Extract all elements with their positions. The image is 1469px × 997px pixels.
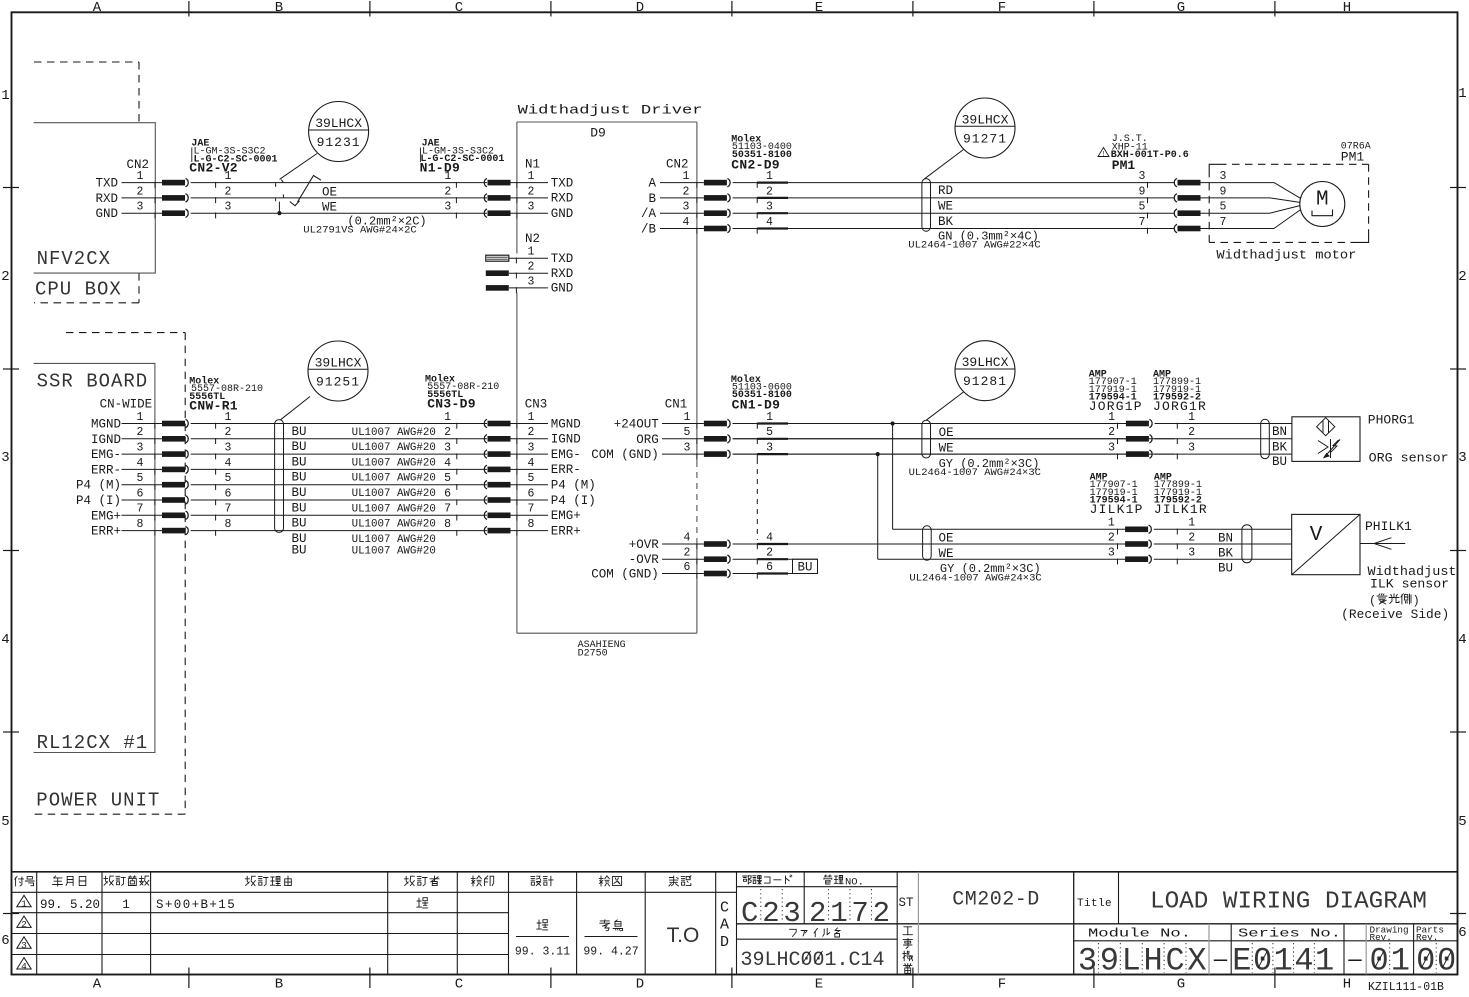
Parts Rev. header: [1416, 925, 1444, 944]
connector PM1 mating: [1139, 170, 1201, 234]
svg-text:ERR-: ERR-: [91, 463, 121, 477]
svg-text:GND: GND: [551, 207, 574, 221]
svg-text:—: —: [1347, 948, 1362, 973]
svg-text:BU: BU: [292, 486, 307, 500]
svg-text:2: 2: [1108, 531, 1115, 544]
svg-text:1: 1: [1, 88, 9, 104]
svg-text:A: A: [648, 177, 656, 191]
connector CN2-D9 part labels (Molex): [731, 133, 792, 172]
BU jumper box: [793, 559, 818, 574]
svg-text:2: 2: [225, 426, 232, 439]
ORG cable labels OE WE GY: [909, 426, 1041, 479]
svg-text:BU: BU: [292, 440, 307, 454]
svg-text:6: 6: [1, 933, 9, 949]
svg-text:8: 8: [528, 518, 535, 531]
svg-text:3: 3: [766, 201, 773, 214]
series number E0141: [1232, 943, 1334, 980]
svg-text:CN3: CN3: [525, 398, 548, 412]
connector N1-D9 mating: [444, 170, 510, 218]
svg-text:ORG: ORG: [636, 433, 659, 447]
svg-text:A: A: [93, 0, 102, 16]
svg-text:2: 2: [1108, 426, 1115, 439]
svg-text:1: 1: [137, 411, 144, 424]
部課コード / 管理NO. header: [743, 875, 864, 889]
svg-text:—: —: [1213, 948, 1228, 973]
connector CN-WIDE pins 1-8: [76, 398, 162, 539]
connector CN2 (NFV2CX) pins 1-3: [95, 158, 162, 221]
svg-text:2: 2: [683, 185, 690, 198]
connector CN2 (driver) pins A B /A /B: [641, 157, 704, 236]
svg-text:BN: BN: [1218, 532, 1233, 546]
svg-text:RXD: RXD: [95, 192, 118, 206]
code C23 2172: [741, 889, 894, 930]
svg-text:JILK1R: JILK1R: [1154, 502, 1208, 517]
wire color labels OE WE: [322, 185, 337, 214]
svg-text:1: 1: [1458, 86, 1466, 102]
svg-text:JORG1R: JORG1R: [1153, 399, 1207, 414]
svg-text:39LHCX: 39LHCX: [962, 355, 1009, 370]
svg-text:CN-WIDE: CN-WIDE: [100, 398, 153, 412]
svg-text:3: 3: [1108, 547, 1115, 560]
wire ORG to JORG1P pin2: [733, 438, 1126, 440]
svg-text:IGND: IGND: [551, 433, 581, 447]
svg-text:V: V: [1310, 524, 1323, 547]
svg-text:/A: /A: [641, 207, 657, 221]
svg-text:RXD: RXD: [551, 192, 574, 206]
connector CN2-V2 part labels (JAE): [189, 139, 277, 176]
ORG sensor label: [1369, 452, 1449, 466]
wire color labels BU / UL1007 AWG#20: [292, 425, 436, 558]
svg-text:PHORG1: PHORG1: [1368, 413, 1415, 428]
svg-text:5: 5: [1220, 201, 1227, 214]
svg-text:3: 3: [528, 442, 535, 455]
dash separator: [1213, 948, 1228, 973]
svg-text:C: C: [455, 977, 463, 993]
drawing rev 01: [1369, 943, 1409, 980]
svg-text:MGND: MGND: [551, 417, 581, 431]
connector JORG mating: [1108, 411, 1292, 459]
CN1-D9 connector continuation dashes: [756, 459, 758, 540]
connector CN1-D9 mating lower: [704, 531, 788, 578]
svg-text:P4 (M): P4 (M): [76, 479, 121, 493]
svg-text:Title: Title: [1077, 898, 1112, 910]
svg-text:91231: 91231: [317, 135, 361, 150]
svg-text:L: L: [1122, 943, 1141, 980]
svg-text:IGND: IGND: [91, 433, 121, 447]
svg-text:UL2791VS AWG#24×2C: UL2791VS AWG#24×2C: [303, 224, 416, 236]
svg-text:(Receive Side): (Receive Side): [1341, 608, 1449, 622]
svg-text:ERR+: ERR+: [91, 525, 121, 539]
connector CN2-V2 mating: [162, 170, 487, 218]
connector CN2-D9 mating: [704, 170, 1175, 234]
svg-text:BU: BU: [1218, 562, 1233, 576]
svg-text:T.O: T.O: [667, 924, 700, 947]
svg-text:BU: BU: [798, 561, 813, 575]
svg-text:1: 1: [683, 170, 690, 183]
svg-text:BN: BN: [1272, 425, 1287, 439]
svg-text:1: 1: [1391, 943, 1410, 980]
svg-text:COM (GND): COM (GND): [591, 568, 659, 582]
svg-text:1: 1: [1315, 943, 1334, 980]
svg-text:4: 4: [766, 531, 773, 544]
svg-text:B: B: [275, 977, 283, 993]
svg-text:5: 5: [137, 472, 144, 485]
svg-text:2: 2: [1188, 531, 1195, 544]
connector CN3-D9 mating: [444, 411, 510, 536]
svg-text:1: 1: [766, 411, 773, 424]
svg-text:5: 5: [444, 472, 451, 485]
svg-text:1: 1: [444, 411, 451, 424]
svg-text:A: A: [720, 917, 729, 934]
svg-text:3: 3: [137, 442, 144, 455]
svg-text:3: 3: [1078, 943, 1097, 980]
motor cable bundle oval: [922, 179, 931, 232]
svg-text:1: 1: [1188, 411, 1195, 424]
svg-text:UL2464-1007 AWG#22×4C: UL2464-1007 AWG#22×4C: [908, 240, 1040, 252]
junction +24OUT branch: [891, 421, 1127, 529]
svg-text:F: F: [998, 0, 1006, 16]
svg-text:UL1007 AWG#20: UL1007 AWG#20: [352, 534, 436, 546]
svg-text:6: 6: [137, 487, 144, 500]
svg-text:CM202-D: CM202-D: [952, 889, 1040, 912]
SSR BOARD / RL12CX board box: [34, 363, 155, 754]
connector N1-D9 part labels (JAE): [420, 138, 505, 175]
svg-text:2: 2: [684, 547, 691, 560]
wire +OVR to JILK1P pin2: [733, 543, 1126, 545]
svg-text:1: 1: [766, 170, 773, 183]
svg-text:C: C: [1165, 943, 1184, 980]
svg-text:9: 9: [1139, 185, 1146, 198]
motor M symbol: [1300, 182, 1345, 227]
svg-text:2: 2: [137, 185, 144, 198]
svg-text:RD: RD: [938, 184, 953, 198]
Widthadjust ILK sensor labels: [1368, 565, 1457, 591]
svg-text:0: 0: [1437, 943, 1456, 980]
svg-text:3: 3: [528, 201, 535, 214]
svg-text:BU: BU: [292, 517, 307, 531]
svg-text:4: 4: [444, 457, 451, 470]
connector JILK mating: [1108, 517, 1292, 565]
svg-text:Widthadjust motor: Widthadjust motor: [1216, 248, 1356, 262]
svg-text:BU: BU: [292, 471, 307, 485]
svg-text:BU: BU: [292, 455, 307, 469]
svg-text:4: 4: [225, 457, 232, 470]
svg-text:OE: OE: [939, 426, 954, 440]
svg-text:C: C: [720, 900, 729, 917]
svg-text:1: 1: [1108, 517, 1115, 530]
balloon 39LHCX 91271: [925, 98, 1016, 179]
svg-text:GND: GND: [95, 207, 118, 221]
svg-text:EMG-: EMG-: [91, 448, 121, 462]
svg-text:5: 5: [1139, 201, 1146, 214]
svg-text:1: 1: [1274, 943, 1293, 980]
svg-text:UL1007 AWG#20: UL1007 AWG#20: [352, 457, 436, 469]
svg-text:EMG+: EMG+: [91, 509, 121, 523]
svg-text:P4 (I): P4 (I): [551, 494, 596, 508]
svg-text:C23: C23: [741, 897, 805, 930]
svg-text:6: 6: [528, 487, 535, 500]
svg-text:91271: 91271: [963, 131, 1007, 146]
ILK cable labels OE WE GY: [909, 532, 1041, 585]
svg-text:5: 5: [1, 814, 9, 830]
revision table headers: [15, 876, 691, 887]
svg-text:UL1007 AWG#20: UL1007 AWG#20: [352, 442, 436, 454]
svg-text:!: !: [1101, 151, 1105, 159]
svg-text:0: 0: [1253, 943, 1272, 980]
revision triangles 1-4: [17, 895, 31, 972]
svg-text:1: 1: [122, 898, 130, 912]
connector CNW-R1 part labels (Molex): [189, 375, 263, 413]
svg-text:UL1007 AWG#20: UL1007 AWG#20: [352, 519, 436, 531]
svg-text:D: D: [636, 977, 644, 993]
ILK receive arrow: [1360, 538, 1405, 550]
svg-text:2: 2: [528, 426, 535, 439]
svg-text:2: 2: [766, 547, 773, 560]
Widthadjust Driver title: [518, 103, 703, 117]
svg-text:99. 3.11: 99. 3.11: [515, 946, 570, 959]
svg-text:N2: N2: [525, 232, 540, 246]
balloon 39LHCX 91251: [281, 341, 369, 420]
svg-text:4: 4: [684, 531, 691, 544]
svg-text:3: 3: [1188, 547, 1195, 560]
ILK sensor wire colors BN BK BU: [1218, 532, 1234, 576]
svg-text:3: 3: [444, 201, 451, 214]
svg-text:39LHC001.C14: 39LHC001.C14: [741, 949, 885, 972]
svg-text:4: 4: [21, 961, 27, 972]
svg-text:BU: BU: [292, 543, 307, 557]
svg-text:POWER UNIT: POWER UNIT: [36, 789, 160, 811]
svg-text:WE: WE: [322, 201, 337, 215]
svg-text:PHILK1: PHILK1: [1365, 519, 1412, 534]
motor pins 3 9 5 7: [1201, 170, 1301, 229]
file name 39LHC001.C14: [741, 949, 885, 972]
connector CN1 (driver) pins 4 2 6: [591, 531, 704, 581]
PHORG1 label: [1368, 413, 1415, 428]
svg-text:1: 1: [528, 411, 535, 424]
svg-text:2: 2: [225, 185, 232, 198]
svg-text:3: 3: [1220, 170, 1227, 183]
Drawing Rev. header: [1370, 925, 1409, 944]
svg-text:8: 8: [444, 518, 451, 531]
svg-text:CN2-V2: CN2-V2: [189, 161, 238, 176]
wire COM(GND) to JORG1P pin3: [733, 453, 1126, 455]
ファイル名 header: [790, 928, 840, 937]
PHILK1 label: [1365, 519, 1412, 534]
wire -OVR to BU jumper: [733, 558, 818, 560]
svg-text:0: 0: [1416, 943, 1435, 980]
svg-text:6: 6: [684, 561, 691, 574]
svg-text:2: 2: [1, 269, 9, 285]
svg-text:UL1007 AWG#20: UL1007 AWG#20: [352, 545, 436, 557]
svg-text:2: 2: [21, 919, 27, 930]
svg-text:3: 3: [1458, 450, 1466, 466]
svg-text:39LHCX: 39LHCX: [315, 355, 362, 370]
svg-text:A: A: [93, 977, 102, 993]
svg-text:UL2464-1007 AWG#24×3C: UL2464-1007 AWG#24×3C: [909, 573, 1041, 585]
svg-text:WE: WE: [938, 200, 953, 214]
svg-text:-OVR: -OVR: [629, 553, 660, 567]
svg-text:WE: WE: [939, 547, 954, 561]
svg-text:P4 (I): P4 (I): [76, 494, 121, 508]
svg-text:NFV2CX: NFV2CX: [37, 248, 111, 270]
svg-text:8: 8: [137, 518, 144, 531]
wire color labels RD WE BK GN: [908, 184, 1040, 251]
svg-text:91251: 91251: [316, 374, 360, 389]
svg-text:+OVR: +OVR: [629, 538, 660, 552]
connector N1 (driver) pins: [511, 157, 574, 221]
svg-text:5: 5: [225, 472, 232, 485]
svg-text:BU: BU: [1272, 455, 1287, 469]
svg-text:EMG+: EMG+: [551, 509, 581, 523]
svg-text:OE: OE: [939, 532, 954, 546]
svg-text:2: 2: [528, 261, 535, 274]
svg-text:5: 5: [1458, 814, 1466, 830]
Widthadjust motor dashed box: [1209, 164, 1368, 242]
svg-text:1: 1: [21, 899, 27, 910]
svg-text:H: H: [1343, 977, 1351, 993]
CAD column: [720, 900, 729, 951]
svg-text:H: H: [1144, 943, 1163, 980]
connector CNW-R1 mating: [162, 411, 487, 536]
svg-text:BU: BU: [292, 425, 307, 439]
Widthadjust motor label: [1216, 248, 1356, 262]
svg-text:P4 (M): P4 (M): [551, 479, 596, 493]
cable crossing mark: [276, 176, 321, 206]
svg-text:7: 7: [1139, 216, 1146, 229]
connector CN1-D9 mating upper: [704, 411, 1175, 459]
svg-text:JORG1P: JORG1P: [1089, 399, 1143, 414]
ORG cable bundle oval (right): [1261, 419, 1270, 458]
svg-text:E: E: [815, 0, 823, 16]
svg-text:2: 2: [766, 185, 773, 198]
svg-text:C: C: [455, 0, 463, 16]
svg-text:TXD: TXD: [551, 176, 574, 190]
svg-text:6: 6: [766, 561, 773, 574]
svg-text:2: 2: [444, 185, 451, 198]
svg-text:2172: 2172: [809, 897, 894, 930]
svg-text:8: 8: [225, 518, 232, 531]
connector N2 (driver): [486, 232, 573, 296]
svg-text:0: 0: [1369, 943, 1388, 980]
connector CN3-D9 part labels (Molex): [425, 373, 499, 411]
svg-text:WE: WE: [939, 442, 954, 456]
wire +24OUT to JORG1P pin1: [733, 423, 1126, 425]
svg-text:BK: BK: [938, 215, 954, 229]
(receive side) labels: [1341, 594, 1449, 623]
Title label and LOAD WIRING DIAGRAM: [1077, 889, 1427, 916]
svg-text:CN3-D9: CN3-D9: [427, 397, 476, 412]
svg-text:7: 7: [137, 503, 144, 516]
svg-text:H: H: [1343, 0, 1351, 16]
svg-text:5: 5: [684, 426, 691, 439]
svg-text:S+00+B+15: S+00+B+15: [156, 898, 236, 912]
dash separator 2: [1347, 948, 1362, 973]
ILK cable bundle oval (left): [923, 526, 932, 560]
svg-text:3: 3: [1, 450, 9, 466]
svg-text:COM (GND): COM (GND): [591, 448, 659, 462]
svg-text:BU: BU: [292, 501, 307, 515]
svg-text:UL1007 AWG#20: UL1007 AWG#20: [352, 503, 436, 515]
shield stub to GND: [277, 202, 281, 216]
svg-text:3: 3: [137, 201, 144, 214]
svg-text:4: 4: [1294, 943, 1313, 980]
svg-text:1: 1: [137, 170, 144, 183]
connector CN1 (driver) pins 1 5 3: [591, 398, 704, 463]
svg-text:3: 3: [1139, 170, 1146, 183]
svg-text:CPU BOX: CPU BOX: [35, 278, 122, 300]
svg-text:RL12CX #1: RL12CX #1: [37, 732, 149, 754]
svg-text:3: 3: [684, 442, 691, 455]
svg-text:EMG-: EMG-: [551, 448, 581, 462]
svg-text:3: 3: [1108, 442, 1115, 455]
svg-text:3: 3: [1188, 442, 1195, 455]
connector JORG1P / JORG1R part labels (AMP): [1089, 369, 1207, 413]
svg-text:): ): [1413, 594, 1420, 608]
svg-text:Widthadjust Driver: Widthadjust Driver: [518, 103, 703, 117]
POWER UNIT dashed enclosure: [34, 333, 186, 815]
ORG cable bundle oval: [922, 420, 931, 458]
svg-text:1: 1: [444, 170, 451, 183]
svg-text:NO.: NO.: [845, 877, 864, 889]
driver unit D9 box: [517, 122, 697, 633]
sheet number KZIL111-01B: [1368, 981, 1444, 994]
svg-text:2: 2: [1188, 426, 1195, 439]
motor identity 07R6A PM1: [1341, 141, 1371, 164]
svg-text:1: 1: [684, 411, 691, 424]
cable spec (0.2mm x2C) UL2791VS: [303, 214, 426, 236]
svg-text:7: 7: [528, 503, 535, 516]
ILK cable bundle oval (right): [1242, 525, 1252, 563]
ORG sensor wire colors BN BK BU: [1272, 425, 1288, 469]
svg-text:D: D: [636, 0, 644, 16]
svg-text:4: 4: [1, 632, 9, 648]
svg-text:BK: BK: [1272, 441, 1288, 455]
svg-text:4: 4: [683, 216, 690, 229]
svg-text:3: 3: [683, 201, 690, 214]
svg-text:39LHCX: 39LHCX: [315, 116, 362, 131]
svg-text:TXD: TXD: [95, 177, 118, 191]
svg-text:2: 2: [528, 185, 535, 198]
svg-text:ILK sensor: ILK sensor: [1370, 578, 1449, 592]
title block table lines: [12, 872, 1458, 975]
svg-text:ORG sensor: ORG sensor: [1369, 452, 1449, 466]
parts rev 00: [1416, 943, 1456, 980]
svg-text:TXD: TXD: [551, 252, 574, 266]
svg-text:MGND: MGND: [91, 418, 121, 432]
svg-text:PM1: PM1: [1112, 158, 1136, 173]
svg-text:UL1007 AWG#20: UL1007 AWG#20: [352, 473, 436, 485]
svg-text:1: 1: [1108, 411, 1115, 424]
svg-text:UL1007 AWG#20: UL1007 AWG#20: [352, 427, 436, 439]
svg-text:99. 4.27: 99. 4.27: [583, 946, 638, 959]
svg-text:E: E: [1232, 943, 1251, 980]
connector CN3 (driver) pins: [511, 398, 596, 539]
CM202-D: [952, 889, 1040, 912]
svg-text:GND: GND: [551, 282, 574, 296]
svg-text:3: 3: [444, 442, 451, 455]
svg-text:/B: /B: [641, 223, 657, 237]
svg-text:7: 7: [444, 503, 451, 516]
svg-text:6: 6: [1458, 925, 1466, 941]
svg-text:LOAD WIRING DIAGRAM: LOAD WIRING DIAGRAM: [1150, 889, 1427, 916]
svg-text:3: 3: [21, 940, 27, 951]
POWER UNIT label: [36, 789, 160, 811]
svg-text:91281: 91281: [963, 374, 1007, 389]
svg-text:BK: BK: [1218, 547, 1234, 561]
ASAHIENG D2750 label: [578, 640, 626, 660]
svg-text:5: 5: [528, 472, 535, 485]
svg-text:5: 5: [766, 426, 773, 439]
